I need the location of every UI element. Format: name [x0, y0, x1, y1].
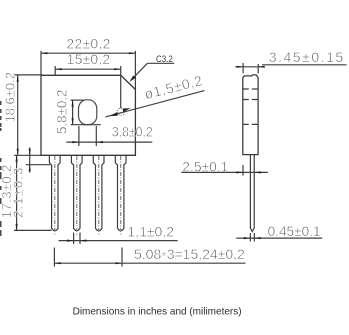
- dim 17.3 extension line bottom: [14, 229, 52, 231]
- dim 3.8 line: [66, 141, 152, 143]
- svg-text:3.45±0.15: 3.45±0.15: [269, 49, 344, 65]
- dim 2.5 extension line: [242, 165, 244, 176]
- dim 22 extension lines: [40, 51, 42, 76]
- svg-text:C3.2: C3.2: [156, 54, 173, 65]
- svg-text:Dimensions in inches and (mili: Dimensions in inches and (milimeters): [73, 307, 242, 318]
- svg-text:18.6±0.2: 18.6±0.2: [2, 72, 17, 123]
- dim 18.6 extension lines: [14, 74, 42, 76]
- dim 15.24 extension lines: [53, 248, 55, 267]
- dim 0.45 line: [236, 237, 322, 239]
- dim 3.45 extension lines: [242, 63, 244, 73]
- svg-text:2.1±0.3: 2.1±0.3: [11, 168, 26, 218]
- side view groove line 3: [243, 123, 258, 125]
- small hole ø1.5 (dotted): [117, 108, 124, 115]
- dim 5.8 extension lines: [71, 99, 84, 101]
- svg-text:0.45±0.1: 0.45±0.1: [268, 223, 321, 239]
- dim 3.8 extension lines: [78, 126, 80, 146]
- dim 1.1 arrows: [67, 240, 86, 242]
- dim 2.1 line: [29, 148, 31, 173]
- dim 15 extension lines: [54, 66, 56, 75]
- pin 2: [71, 155, 82, 230]
- dim 3.45 arrows: [237, 66, 265, 68]
- hole dia leader line: [106, 91, 205, 117]
- dim 15.24 arrows: [54, 262, 122, 264]
- dim 15 line: [55, 68, 121, 70]
- dim 22 line: [41, 52, 135, 54]
- body outline front view: [41, 75, 135, 155]
- dim 2.5 arrows: [237, 171, 261, 173]
- dim 0.45 extension lines: [249, 233, 251, 242]
- pin 1 centerline: [54, 156, 56, 236]
- svg-text:2.5±0.1: 2.5±0.1: [182, 158, 228, 174]
- svg-text:5.08*3=15,24±0,2: 5.08*3=15,24±0,2: [134, 246, 245, 264]
- dim 1.1 line: [59, 240, 178, 242]
- side view lead: [250, 155, 254, 232]
- dim 17.3 arrows: [16, 155, 18, 230]
- svg-text:3,8±0,2: 3,8±0,2: [112, 124, 153, 140]
- dim 5.8 arrows: [72, 100, 74, 125]
- dim 1.1 extension lines: [73, 233, 75, 245]
- dim 2.1 extension line: [26, 164, 50, 166]
- pin 3 centerline: [98, 156, 100, 236]
- dim 18.6 line: [17, 75, 19, 155]
- side view groove line 1: [243, 88, 258, 90]
- side view body: [243, 75, 258, 155]
- svg-text:5,8±0,2: 5,8±0,2: [53, 89, 69, 134]
- pin 1: [49, 155, 60, 230]
- svg-text:ø1,5±0,2: ø1,5±0,2: [143, 72, 204, 102]
- dim 18.6 arrows: [17, 75, 19, 155]
- pin 2 centerline: [76, 156, 78, 236]
- dim 5.8 line: [72, 100, 74, 125]
- side view groove line 2: [243, 99, 258, 101]
- dim 15 arrows: [55, 68, 121, 70]
- svg-text:22±0,2: 22±0,2: [66, 35, 110, 51]
- dim 17.3 line: [16, 155, 18, 230]
- dim 3.45 line: [235, 66, 262, 68]
- svg-text:15±0,2: 15±0,2: [67, 51, 111, 67]
- dim 2.5 line: [181, 171, 267, 173]
- svg-text:1,1±0,2: 1,1±0,2: [127, 223, 174, 239]
- hole dia arrows: [110, 108, 131, 116]
- chamfer note C3.2 leader: [147, 62, 174, 64]
- left edge clipped text fragments: [0, 101, 2, 236]
- dim 15.24 line: [54, 262, 245, 264]
- dim 2.1 arrows: [29, 149, 31, 171]
- dim 22 arrows: [41, 52, 135, 54]
- pin 4 centerline: [120, 156, 122, 236]
- dim 0.45 arrows: [244, 237, 261, 239]
- mounting hole (rounded square): [79, 100, 97, 125]
- pin 4: [115, 155, 126, 230]
- dim 3.8 arrows: [72, 141, 102, 143]
- pin 3: [93, 155, 104, 230]
